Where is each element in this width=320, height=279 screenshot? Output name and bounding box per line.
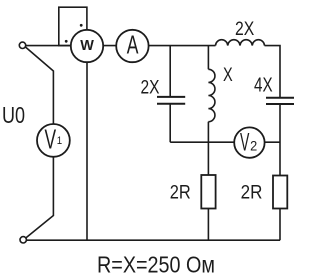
svg-text:2X: 2X: [141, 78, 160, 99]
svg-text:U0: U0: [2, 102, 25, 128]
svg-text:V: V: [45, 124, 57, 155]
resistor 2R (right): [273, 176, 287, 209]
wire X-branch top stem: [207, 46, 209, 70]
svg-text:W: W: [80, 38, 94, 54]
capacitor 4X: [266, 98, 294, 104]
svg-text:R=X=250 Ом: R=X=250 Ом: [97, 252, 215, 278]
wire 2X-cap top stem: [169, 46, 171, 97]
terminal top: [19, 42, 25, 48]
wire X-branch lower stem: [207, 122, 209, 241]
wire right branch below 4X: [279, 104, 281, 240]
resistor 2R (left): [201, 175, 215, 209]
wire 2X-cap bottom stem: [169, 104, 171, 142]
wire wattmeter down lead: [86, 60, 88, 240]
svg-text:2: 2: [250, 138, 257, 154]
inductor 2X (horizontal coil): [216, 40, 265, 46]
wire V1 branch top diagonal: [25, 47, 53, 238]
wire bottom rail: [27, 239, 280, 241]
svg-text:X: X: [223, 65, 233, 86]
op W meter circle: [71, 30, 103, 62]
wire top rail: [25, 45, 215, 47]
voltmeter V2 circle: [234, 127, 264, 157]
wire coil to top-right corner: [265, 46, 281, 97]
svg-text:A: A: [127, 31, 139, 59]
terminal bottom: [20, 237, 26, 243]
wattmeter polarity dot upper: [80, 24, 83, 27]
svg-text:4X: 4X: [254, 75, 273, 97]
inductor X (vertical coil): [208, 69, 215, 121]
svg-text:2X: 2X: [235, 19, 255, 40]
wattmeter voltage-coil box: [59, 7, 87, 45]
svg-text:1: 1: [57, 135, 62, 147]
ammeter A circle: [116, 30, 148, 62]
capacitor 2X: [157, 97, 185, 104]
svg-text:2R: 2R: [170, 183, 191, 204]
svg-text:2R: 2R: [241, 183, 263, 204]
wire middle horizontal to V2: [170, 141, 280, 143]
wattmeter polarity dot lower: [65, 40, 68, 43]
voltmeter V1 circle: [37, 124, 70, 157]
svg-text:V: V: [240, 129, 249, 157]
